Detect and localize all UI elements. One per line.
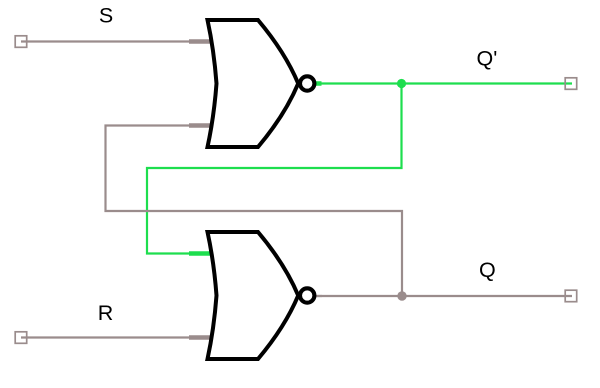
wire R input from terminal to U2 input B <box>21 336 190 338</box>
lead U2 output (low) <box>315 295 322 297</box>
wire S input from terminal to U1 input A <box>21 40 190 42</box>
wire net Q' from U1 output to terminal <box>321 82 572 84</box>
wire net Q from U2 output to terminal <box>321 295 572 297</box>
NOR gate U1 inversion bubble <box>300 76 314 90</box>
terminal Q' <box>565 78 577 90</box>
NOR gate U1 body <box>208 20 299 147</box>
lead U1 input B (low) <box>189 123 217 128</box>
terminal Q <box>565 290 577 302</box>
lead U1 input A (low) <box>189 39 217 44</box>
lead U2 input A (high) <box>189 251 217 256</box>
svg-text:Q: Q <box>479 258 496 282</box>
lead U2 input B (low) <box>189 335 217 340</box>
junction node Q' <box>397 79 406 88</box>
svg-text:Q': Q' <box>477 47 498 71</box>
terminal R <box>15 332 27 344</box>
NOR gate U2 body <box>208 232 299 359</box>
NOR gate U2 inversion bubble <box>300 288 314 302</box>
wire feedback Q to U1 input B <box>106 126 403 297</box>
svg-text:S: S <box>99 4 113 28</box>
wire feedback Q' to U2 input A <box>147 84 402 254</box>
svg-text:R: R <box>98 301 114 325</box>
junction node Q <box>397 291 406 300</box>
lead U1 output (high) <box>316 81 322 86</box>
terminal S <box>15 36 27 48</box>
